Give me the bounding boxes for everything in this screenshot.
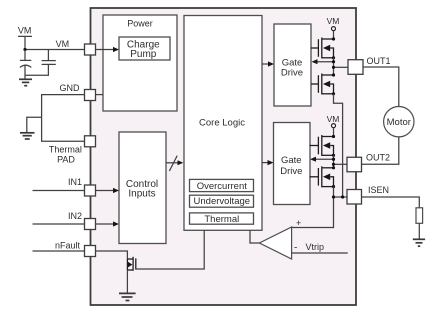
bus slash (169, 156, 177, 171)
node feedback junction (332, 60, 335, 63)
node OUT1 wire junction (332, 66, 335, 69)
wire feedback to Gate Drive 1 with arrow (316, 61, 334, 63)
node Q4 source (332, 185, 335, 188)
VM terminal upper bridge (327, 16, 340, 31)
pin GND (85, 90, 96, 101)
transistor Q5 open-drain fault output (127, 257, 135, 271)
pin IN2 (85, 219, 96, 230)
svg-text:Drive: Drive (280, 166, 302, 177)
wire switch node to OUT1 pin (334, 66, 349, 68)
pin OUT2 (347, 157, 362, 172)
node Q1 drain (332, 37, 335, 40)
node Q2 source (332, 92, 335, 95)
transistor Q2 low-side OUT1 (311, 74, 334, 95)
pin ISEN (347, 190, 362, 205)
svg-text:OUT2: OUT2 (366, 152, 390, 162)
wire fault transistor source to ground (126, 270, 128, 293)
wire Core Logic to fault transistor gate (136, 230, 204, 269)
capacitor C2 (bypass cap) (25, 50, 56, 76)
wire switch node to OUT2 pin (334, 163, 348, 165)
wire IN1 external (33, 190, 85, 192)
wire feedback to Gate Drive 2 with arrow (315, 158, 334, 160)
transistor Q1 high-side OUT1 (311, 38, 334, 59)
VM supply symbol (external) (18, 26, 32, 50)
wire OUT1 to motor (363, 67, 399, 107)
svg-text:Drive: Drive (281, 68, 303, 79)
svg-text:IN2: IN2 (68, 211, 82, 221)
wire Vtrip reference to comparator minus input (292, 252, 348, 254)
svg-text:ISEN: ISEN (368, 185, 389, 195)
svg-text:Pump: Pump (130, 49, 157, 60)
ground at GND loop (20, 133, 35, 139)
pin IN1 (85, 185, 96, 196)
svg-text:nFault: nFault (55, 241, 81, 251)
node OUT2 wire junction (332, 163, 335, 166)
svg-text:Vtrip: Vtrip (306, 242, 325, 252)
wire nFault external (33, 250, 85, 252)
wire VM supply to VM pin (25, 49, 85, 51)
svg-text:VM: VM (18, 26, 32, 36)
pin Thermal PAD (85, 136, 96, 147)
wire loop GND to Thermal PAD (42, 95, 85, 142)
Power block (103, 15, 177, 111)
IC device outline U1 (91, 8, 357, 305)
wire comparator output to Core Logic (250, 230, 259, 243)
wire IN2 to Control Inputs with arrow (96, 223, 115, 225)
svg-text:-: - (294, 243, 297, 254)
Thermal block (190, 213, 254, 225)
wire VM terminal to Q1 drain (333, 31, 335, 39)
wire GND pin to Power block (96, 94, 104, 96)
node junction on VM wire (23, 48, 26, 51)
svg-text:Gate: Gate (281, 155, 302, 166)
node Q4 drain (332, 166, 335, 169)
svg-text:Power: Power (127, 19, 153, 29)
wire Q4 source to ISEN and comparator (292, 187, 334, 228)
ground under sense resistor (413, 239, 425, 246)
Gate Drive block 2 (274, 123, 311, 205)
wire ISEN pin to sense resistor (362, 197, 420, 208)
wire VM pin to charge pump with arrow (96, 49, 115, 51)
Overcurrent block (190, 179, 254, 192)
node Q3 source (332, 154, 335, 157)
comparator U2 (259, 218, 301, 259)
Undervoltage block (190, 195, 254, 207)
svg-text:Core Logic: Core Logic (199, 117, 245, 128)
wire motor to OUT2 (362, 137, 399, 164)
motor M1 (384, 107, 414, 137)
Control Inputs block (119, 132, 166, 244)
wire ISEN node to ISEN pin (334, 196, 348, 198)
svg-text:Motor: Motor (387, 117, 411, 128)
transistor Q4 low-side OUT2 (310, 166, 334, 187)
svg-text:IN1: IN1 (68, 177, 82, 187)
wire OUT1 switch node rail (333, 58, 335, 75)
node Q2 drain (332, 73, 335, 76)
svg-text:VM: VM (327, 16, 340, 26)
svg-text:VM: VM (56, 39, 70, 49)
pin VM (85, 44, 96, 55)
wire loop to ground (27, 117, 42, 132)
ground under C1 (19, 79, 32, 85)
wire IN2 external (33, 223, 85, 225)
svg-text:+: + (296, 218, 301, 228)
wire VM terminal to Q3 drain (333, 128, 335, 137)
svg-text:Undervoltage: Undervoltage (194, 196, 251, 207)
wire Core Logic to Gate Drive 2 with arrow (262, 162, 269, 164)
bus wire Control Inputs to Core Logic with arrow and slash (166, 162, 179, 164)
wire nFault pin to fault transistor drain (96, 251, 128, 259)
svg-text:Thermal: Thermal (49, 144, 82, 154)
svg-text:GND: GND (60, 83, 81, 93)
node ISEN junction 2 (341, 195, 344, 198)
pin OUT1 (348, 60, 363, 75)
svg-text:OUT1: OUT1 (367, 56, 391, 66)
wire IN1 to Control Inputs with arrow (96, 190, 115, 192)
svg-text:Overcurrent: Overcurrent (197, 181, 248, 192)
charge pump block (119, 37, 170, 60)
svg-text:Thermal: Thermal (204, 214, 239, 225)
resistor R1 sense (416, 208, 423, 224)
Gate Drive block 1 (274, 24, 311, 106)
pin nFault (85, 246, 96, 257)
capacitor C1 (polarized bulk cap) (20, 50, 31, 80)
wire resistor to ground (418, 223, 420, 239)
wire Q2 source to ISEN rail (334, 94, 343, 197)
node feedback junction 2 (332, 158, 335, 161)
svg-text:VM: VM (327, 114, 340, 124)
wire Core Logic to Gate Drive 1 with arrow (262, 63, 269, 65)
node Q1 source (332, 56, 335, 59)
transistor Q3 high-side OUT2 (310, 135, 334, 156)
ground under fault transistor (119, 293, 136, 300)
Core Logic block (184, 16, 262, 231)
wire OUT2 switch node rail (333, 155, 335, 168)
node ISEN junction 1 (332, 195, 335, 198)
node Q3 drain (332, 135, 335, 138)
svg-text:PAD: PAD (57, 154, 75, 164)
svg-text:Inputs: Inputs (128, 188, 155, 199)
VM terminal lower bridge (327, 114, 340, 127)
